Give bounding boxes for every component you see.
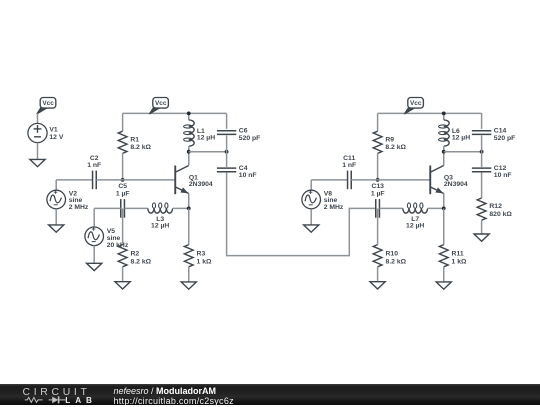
wire tank column stage 1 [226, 113, 228, 172]
node L1 top [187, 112, 191, 116]
svg-text:8.2 kΩ: 8.2 kΩ [385, 144, 406, 151]
svg-text:2N3904: 2N3904 [189, 181, 213, 188]
svg-text:1 nF: 1 nF [87, 162, 101, 169]
wire Q1 collector [188, 152, 190, 166]
svg-text:12 µH: 12 µH [151, 223, 169, 230]
wire C2 to Q1 base [96, 179, 175, 181]
svg-text:R1: R1 [130, 136, 139, 143]
capacitor C5 [116, 183, 130, 218]
wire V8 to C11 [311, 180, 347, 190]
CircuitLab logo [0, 384, 110, 406]
svg-text:1 µF: 1 µF [371, 190, 385, 197]
svg-text:R10: R10 [386, 251, 399, 258]
ground (R2) [115, 282, 130, 289]
resistor R1 [118, 113, 151, 179]
svg-text:sine: sine [107, 235, 121, 242]
resistor R11 [439, 208, 467, 282]
ground (V1) [30, 159, 45, 166]
wire Vcc rail stage 1 [123, 112, 227, 114]
wire tank column stage 2 [481, 113, 483, 172]
wire C13 to L7 [379, 207, 402, 209]
capacitor C4 [217, 165, 257, 179]
ground (V2) [49, 225, 64, 232]
inductor L3 [148, 203, 173, 230]
svg-text:C13: C13 [371, 183, 384, 190]
ground (V8) [304, 225, 319, 232]
svg-text:20 kHz: 20 kHz [107, 242, 129, 249]
node emitter junction stage 2 [442, 207, 446, 211]
svg-text:R2: R2 [131, 251, 140, 258]
voltage source V2 [47, 190, 89, 211]
svg-text:Vcc: Vcc [155, 100, 167, 107]
svg-text:V1: V1 [49, 127, 58, 134]
svg-text:8.2 kΩ: 8.2 kΩ [130, 144, 151, 151]
wire Vcc rail stage 2 [378, 112, 482, 114]
svg-text:12 µH: 12 µH [406, 223, 424, 230]
transistor Q1 [175, 166, 213, 195]
voltage source V8 [302, 190, 344, 211]
voltage source V1 [28, 123, 64, 142]
svg-text:1 kΩ: 1 kΩ [452, 258, 467, 265]
svg-text:2N3904: 2N3904 [444, 181, 468, 188]
wire stage1 output to stage2 (coupling) [227, 173, 376, 256]
wire collector node stage 2 [444, 151, 482, 153]
wire collector node stage 1 [189, 151, 227, 153]
node L1 bottom [187, 150, 191, 154]
svg-text:C14: C14 [494, 128, 507, 135]
resistor R10 [373, 208, 406, 281]
capacitor C13 [371, 183, 385, 218]
capacitor C12 [472, 165, 512, 179]
capacitor C11 [342, 155, 356, 189]
wire Q3 emitter [443, 194, 445, 209]
svg-text:10 nF: 10 nF [494, 172, 512, 179]
wire V8 to ground [310, 209, 312, 225]
svg-text:2 MHz: 2 MHz [324, 204, 344, 211]
svg-text:520 pF: 520 pF [239, 135, 261, 142]
svg-text:R9: R9 [385, 136, 394, 143]
svg-text:10 nF: 10 nF [239, 172, 257, 179]
ground (R10) [370, 282, 385, 289]
ground (R3) [181, 282, 196, 289]
inductor L6 [439, 113, 471, 151]
svg-text:1 kΩ: 1 kΩ [197, 258, 212, 265]
wire C12 to R12 [481, 173, 483, 198]
capacitor C14 [472, 128, 515, 142]
wire V5 to ground [93, 246, 95, 264]
resistor R2 [118, 208, 151, 281]
wire V1 to ground [37, 143, 39, 160]
svg-text:R12: R12 [489, 203, 502, 210]
svg-text:1 nF: 1 nF [342, 162, 356, 169]
svg-text:1 µF: 1 µF [116, 190, 130, 197]
node emitter junction stage 1 [187, 207, 191, 211]
resistor R3 [184, 208, 212, 282]
footer bar [0, 384, 540, 406]
svg-text:Vcc: Vcc [410, 100, 422, 107]
resistor R9 [373, 113, 406, 179]
svg-text:C12: C12 [494, 165, 507, 172]
svg-text:LAB: LAB [65, 395, 97, 404]
wire V2 to ground [55, 209, 57, 225]
footer text [114, 387, 234, 406]
wire C11 to Q3 base [351, 179, 430, 181]
wire L7 to emitter [428, 207, 444, 209]
ground (V5) [87, 263, 102, 270]
svg-text:520 pF: 520 pF [494, 135, 516, 142]
voltage source V5 [85, 227, 129, 249]
svg-text:V5: V5 [107, 228, 116, 235]
svg-text:2 MHz: 2 MHz [69, 204, 89, 211]
wire L3 to emitter [173, 207, 189, 209]
svg-text:8.2 kΩ: 8.2 kΩ [386, 258, 407, 265]
node tank junction stage 2 [480, 150, 484, 154]
svg-text:C4: C4 [239, 165, 248, 172]
svg-text:Vcc: Vcc [42, 100, 54, 107]
svg-text:12 µH: 12 µH [452, 135, 470, 142]
svg-text:C5: C5 [118, 183, 127, 190]
svg-text:820 kΩ: 820 kΩ [489, 211, 512, 218]
node tank junction stage 1 [225, 150, 229, 154]
transistor Q3 [430, 166, 468, 195]
wire Q3 collector [443, 152, 445, 166]
power flag Vcc (stage 2 rail) [404, 98, 423, 115]
power flag Vcc (V1) [37, 98, 56, 115]
svg-text:R3: R3 [197, 251, 206, 258]
wire C5 to L3 [124, 207, 147, 209]
svg-text:12 V: 12 V [49, 134, 63, 141]
power flag Vcc (stage 1 rail) [149, 98, 168, 115]
node base junction stage 1 [121, 178, 125, 182]
wire Vcc flag to V1 [37, 113, 39, 123]
wire V2 to C2 [56, 180, 92, 190]
node base junction stage 2 [376, 178, 380, 182]
capacitor C2 [87, 155, 101, 189]
svg-text:12 µH: 12 µH [197, 135, 215, 142]
node L6 bottom [442, 150, 446, 154]
wire Q1 emitter [188, 194, 190, 209]
ground (R11) [436, 282, 451, 289]
svg-text:R11: R11 [452, 251, 464, 258]
resistor R12 [477, 198, 512, 234]
ground (R12) [474, 234, 489, 241]
capacitor C6 [217, 128, 260, 142]
node L6 top [442, 112, 446, 116]
inductor L1 [184, 113, 216, 151]
wire V5 to C5 [94, 208, 121, 227]
svg-text:8.2 kΩ: 8.2 kΩ [131, 258, 152, 265]
inductor L7 [403, 203, 428, 230]
svg-text:C6: C6 [239, 128, 248, 135]
